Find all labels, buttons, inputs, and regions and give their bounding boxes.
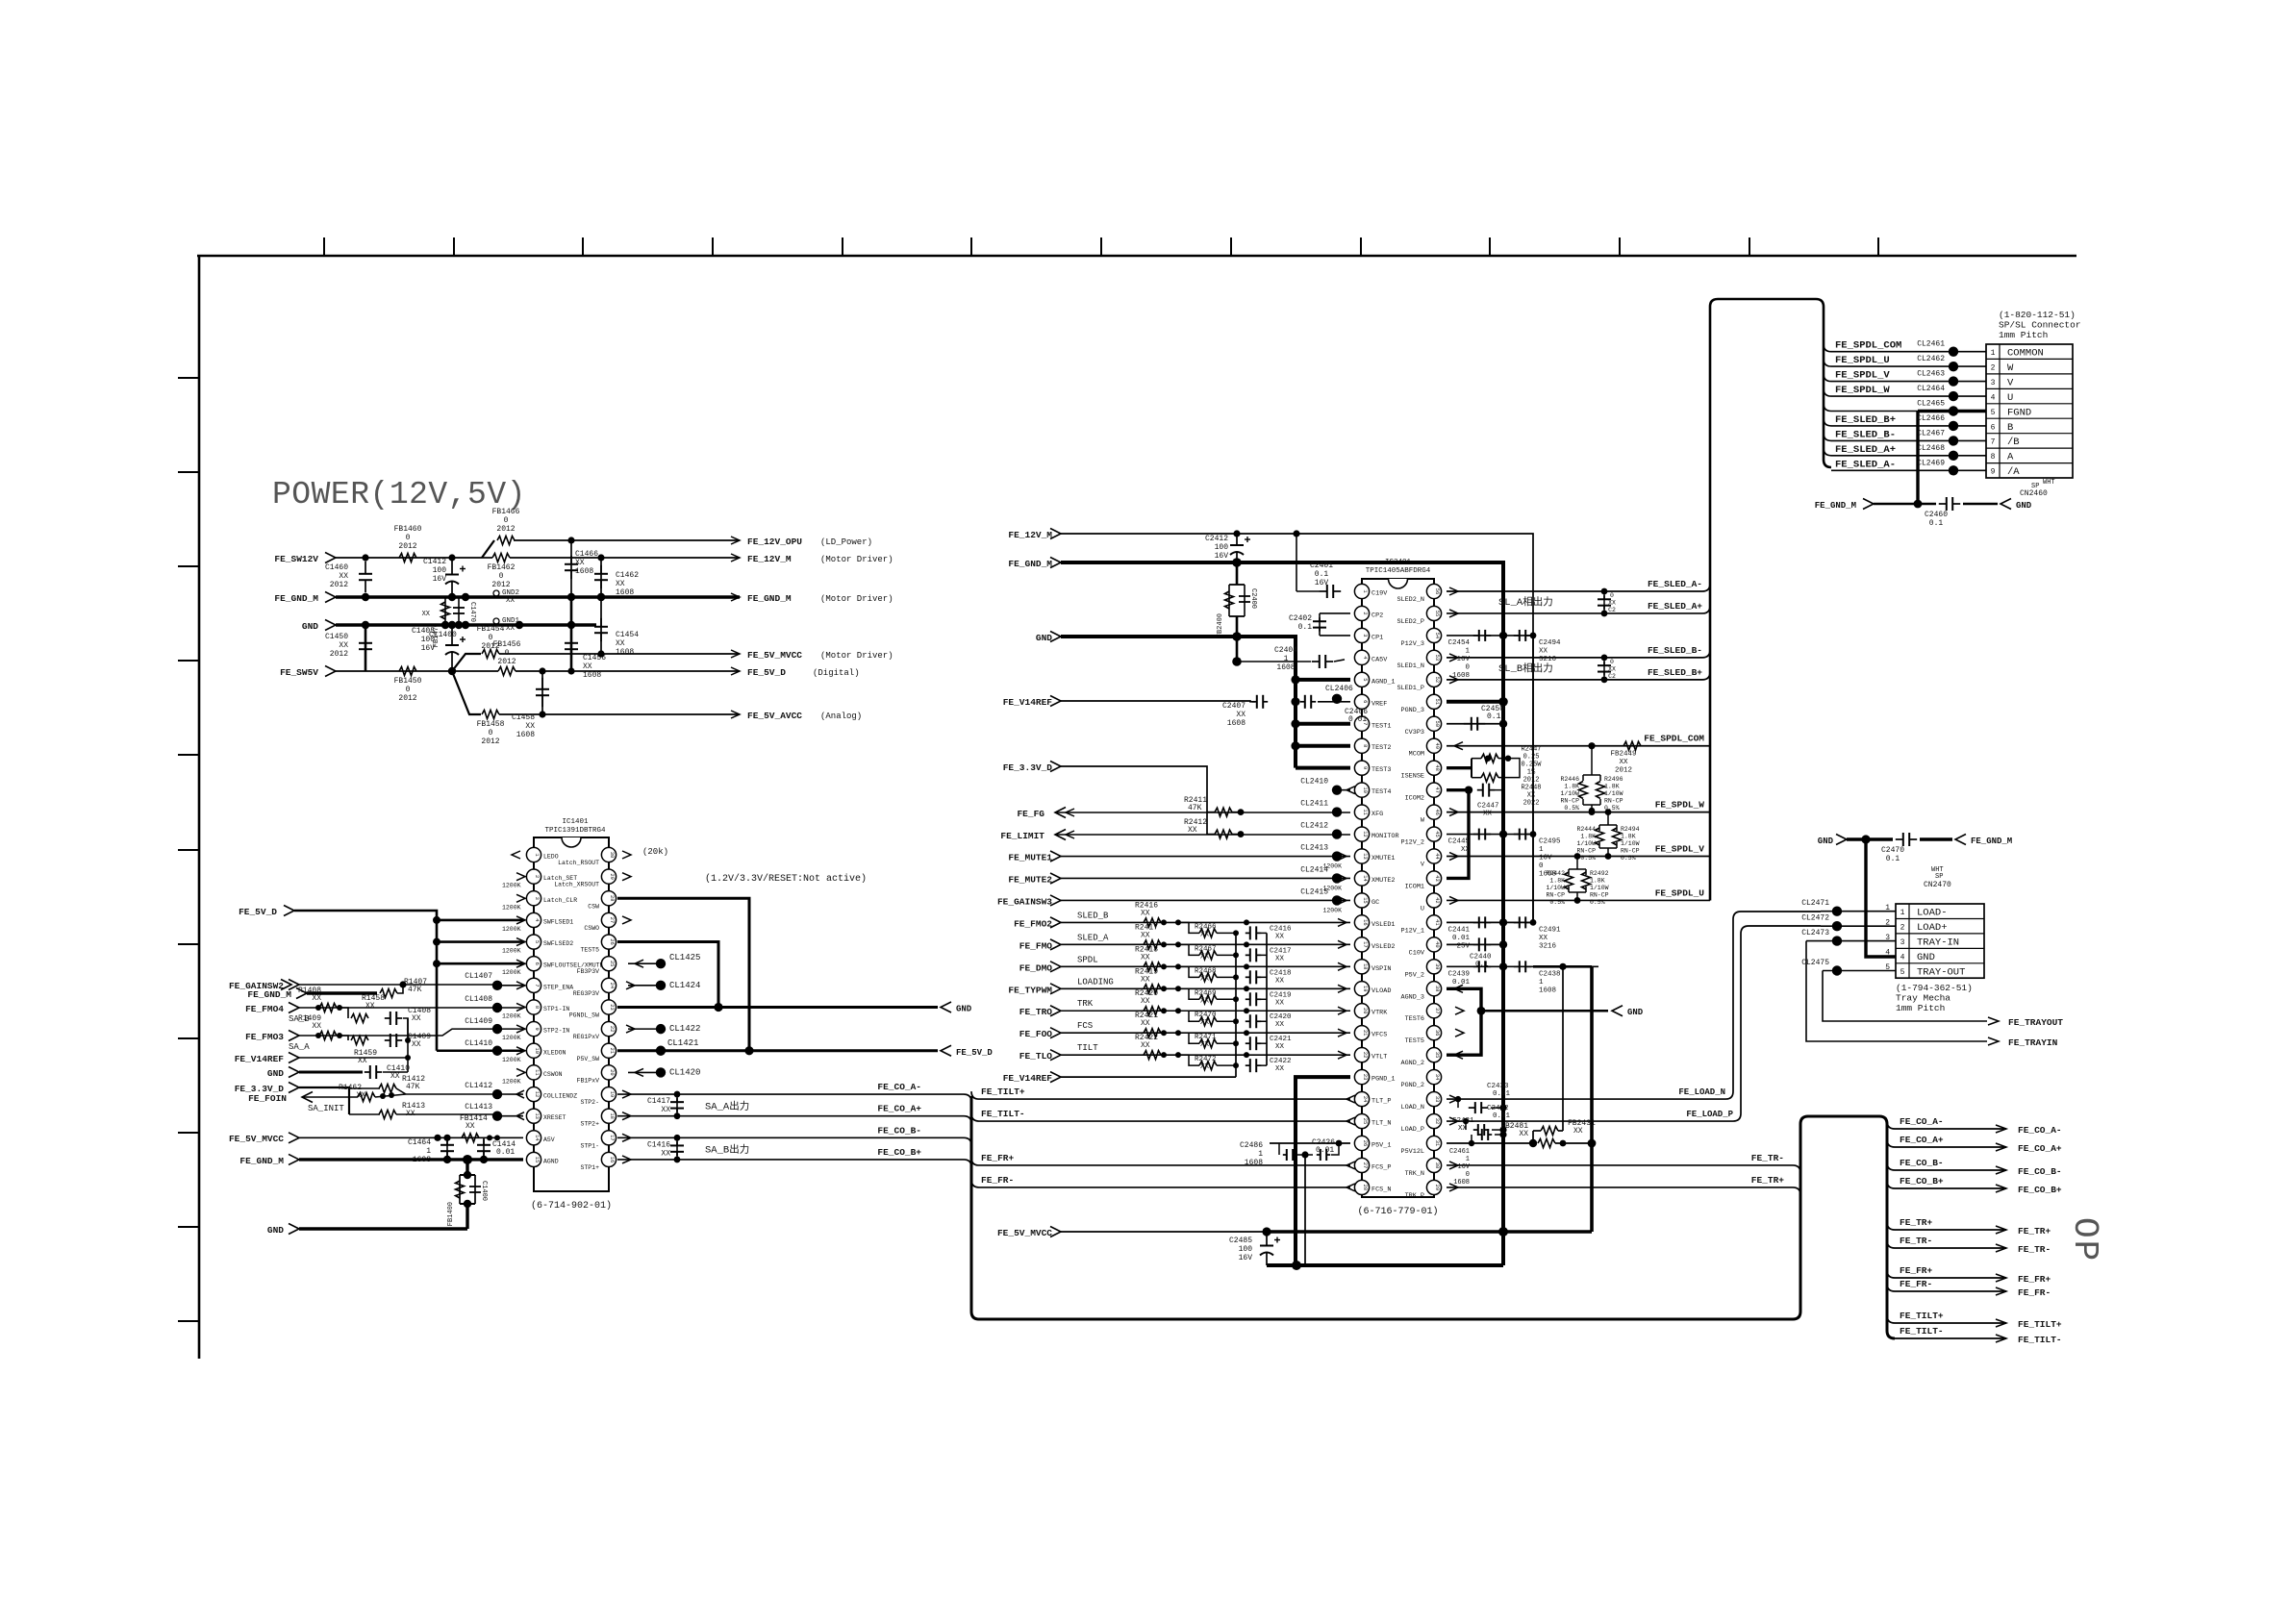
inductor CL2472 — [1832, 921, 1842, 931]
svg-text:B: B — [2007, 422, 2013, 434]
svg-text:49: 49 — [1434, 742, 1440, 748]
svg-text:C2433: C2433 — [1487, 1083, 1509, 1090]
svg-text:C2416: C2416 — [1270, 925, 1292, 933]
svg-text:(Motor Driver): (Motor Driver) — [820, 555, 893, 564]
svg-text:FE_LOAD_P: FE_LOAD_P — [1686, 1110, 1733, 1119]
wire FE_FOO row — [1061, 1032, 1350, 1034]
svg-text:0.5%: 0.5% — [1621, 855, 1636, 862]
resistor R2470 — [1178, 1011, 1199, 1021]
wire FE_FG row — [1055, 812, 1350, 813]
svg-text:10: 10 — [534, 1048, 540, 1054]
svg-text:9: 9 — [534, 1027, 540, 1030]
svg-text:0: 0 — [1466, 1171, 1470, 1179]
pin 7 IC1401 STEP_ENA — [526, 978, 541, 992]
svg-text:TEST5: TEST5 — [1405, 1037, 1424, 1045]
svg-text:SA_A: SA_A — [289, 1042, 310, 1052]
svg-text:3: 3 — [1362, 634, 1368, 637]
svg-text:0.01: 0.01 — [496, 1148, 515, 1157]
svg-text:(1.2V/3.3V/RESET:Not active): (1.2V/3.3V/RESET:Not active) — [705, 873, 867, 885]
ground symbol GND2 — [493, 590, 499, 596]
svg-text:12: 12 — [1362, 831, 1368, 837]
pin 21 IC1401 P5V_SW — [601, 1043, 616, 1058]
pin 5 IC2401 AGND_1 — [1354, 672, 1369, 687]
pin 19 IC2401 VLOAD — [1354, 982, 1369, 996]
svg-text:20: 20 — [609, 1069, 615, 1075]
svg-text:FCS_P: FCS_P — [1371, 1163, 1391, 1171]
svg-text:TRK_N: TRK_N — [1405, 1170, 1424, 1178]
svg-text:C2470: C2470 — [1881, 846, 1904, 855]
svg-text:1/10W: 1/10W — [1604, 790, 1623, 797]
wire cap common vertical — [407, 1018, 409, 1072]
pin 29 IC1401 Latch_XRSOUT — [601, 869, 616, 884]
wire FGND to ground cap thick — [1916, 412, 1919, 505]
connector CN2470 tray mecha table — [1896, 904, 1984, 978]
wire CN2460 row 5 — [1824, 404, 1986, 412]
svg-text:/A: /A — [2007, 466, 2020, 478]
svg-text:XX: XX — [356, 1091, 365, 1100]
pin 21 IC2401 VFCS — [1354, 1026, 1369, 1040]
svg-text:FE_5V_MVCC: FE_5V_MVCC — [747, 650, 802, 661]
svg-text:22: 22 — [609, 1026, 615, 1032]
svg-text:FE_3.3V_D: FE_3.3V_D — [1003, 762, 1053, 773]
resistor R1459 — [340, 1036, 348, 1040]
svg-text:2022: 2022 — [1523, 800, 1540, 808]
svg-text:1%: 1% — [1527, 769, 1536, 777]
inductor CL1409 — [492, 1024, 502, 1034]
svg-text:42: 42 — [1434, 897, 1440, 903]
svg-text:2: 2 — [534, 875, 540, 878]
pin 10 IC1401 XLEDON — [526, 1043, 541, 1058]
capacitor SL_A filter — [1603, 591, 1605, 613]
svg-text:Latch_XRSOUT: Latch_XRSOUT — [554, 882, 599, 888]
inductor CL1420 — [628, 1071, 656, 1073]
svg-text:2012: 2012 — [398, 694, 416, 703]
svg-text:LOAD-: LOAD- — [1917, 908, 1948, 919]
ruler ticks left — [178, 378, 199, 1321]
svg-text:CL2473: CL2473 — [1801, 929, 1829, 937]
node FE_CO_A- output — [1996, 1125, 2006, 1133]
svg-text:C1454: C1454 — [616, 631, 639, 639]
wire FE_5V_D to pin 5 — [437, 940, 523, 943]
wire LOAD_P row to pipe — [1447, 926, 1821, 1121]
svg-text:FE_5V_MVCC: FE_5V_MVCC — [997, 1228, 1052, 1238]
wire FE_TILT+ output row — [1887, 1315, 2006, 1323]
svg-text:55: 55 — [1434, 611, 1440, 616]
capacitor C2433 — [1457, 1099, 1459, 1108]
resistor FB2449 — [1623, 741, 1641, 750]
wire P5V_SW to FE_5V_D — [617, 1049, 938, 1052]
svg-text:CSWON: CSWON — [543, 1071, 563, 1078]
svg-text:C1464: C1464 — [408, 1138, 431, 1147]
wire FE_V14REF bottom row — [1061, 1076, 1236, 1078]
svg-text:MCOM: MCOM — [1409, 751, 1424, 759]
svg-text:CN2460: CN2460 — [2020, 489, 2048, 498]
capacitor C2422 — [1246, 1064, 1250, 1066]
svg-text:24: 24 — [609, 983, 615, 988]
svg-text:PGNDL_SW: PGNDL_SW — [569, 1012, 599, 1018]
svg-text:5: 5 — [1900, 968, 1905, 977]
svg-text:FE_SLED_B+: FE_SLED_B+ — [1835, 414, 1896, 426]
capacitor SL_B filter — [1603, 658, 1605, 680]
svg-text:FE_SPDL_U: FE_SPDL_U — [1835, 355, 1890, 366]
svg-text:VSLED2: VSLED2 — [1371, 943, 1395, 951]
wire GND branch vertical — [570, 597, 573, 671]
svg-text:SLED2_N: SLED2_N — [1397, 596, 1424, 604]
wire FE_12V_M row — [510, 557, 740, 559]
pin 16 IC2401 VSLED1 — [1354, 915, 1369, 930]
svg-text:(Motor Driver): (Motor Driver) — [820, 594, 893, 604]
svg-text:1200K: 1200K — [502, 904, 521, 911]
svg-text:SL_B相出力: SL_B相出力 — [1498, 662, 1553, 675]
svg-text:AGND_1: AGND_1 — [1371, 678, 1395, 686]
svg-text:FE_SW5V: FE_SW5V — [280, 667, 318, 678]
pin 34 IC2401 PGND_2 — [1426, 1070, 1441, 1085]
svg-text:100: 100 — [1215, 543, 1229, 552]
capacitor C1466 — [570, 540, 572, 597]
svg-text:PGND_1: PGND_1 — [1371, 1076, 1395, 1084]
svg-text:RN-CP: RN-CP — [1560, 798, 1579, 805]
wire V FE_SPDL_V row — [1447, 856, 1710, 858]
svg-text:28: 28 — [1362, 1185, 1368, 1190]
svg-text:FCS: FCS — [1077, 1021, 1093, 1031]
node GND arrow right side — [1612, 1006, 1623, 1016]
svg-text:R2447: R2447 — [1521, 746, 1541, 754]
svg-text:FE_SLED_B+: FE_SLED_B+ — [1648, 667, 1702, 678]
svg-text:R2448: R2448 — [1521, 785, 1541, 792]
svg-text:R2494: R2494 — [1621, 826, 1640, 833]
svg-text:16V: 16V — [1457, 1163, 1470, 1171]
svg-text:R2446: R2446 — [1560, 776, 1579, 783]
pin 30 IC2401 TRK_N — [1426, 1158, 1441, 1172]
svg-text:CL1412: CL1412 — [465, 1082, 492, 1090]
svg-text:C1462: C1462 — [616, 571, 639, 580]
node FE_5V_MVCC output — [731, 650, 740, 658]
svg-text:XX: XX — [339, 641, 348, 650]
wire FE_GND_M route thick — [1061, 562, 1503, 1265]
svg-text:FE_CO_A-: FE_CO_A- — [877, 1082, 921, 1092]
svg-text:16V: 16V — [1315, 579, 1329, 587]
svg-text:4: 4 — [534, 918, 540, 921]
svg-text:1.8K: 1.8K — [1604, 784, 1620, 790]
svg-text:TEST2: TEST2 — [1371, 744, 1391, 752]
svg-text:CL2468: CL2468 — [1917, 444, 1945, 453]
capacitor C1417 — [676, 1094, 678, 1116]
pin 13 IC1401 XRESET — [526, 1109, 541, 1123]
svg-text:19: 19 — [609, 1091, 615, 1097]
resistor FB1462 — [482, 557, 492, 559]
wire SLED1_P FE_SLED_B+ row — [1447, 672, 1710, 680]
pin 11 arrow CSWON — [516, 1068, 525, 1076]
svg-text:WHT: WHT — [2043, 479, 2055, 487]
wire AGND_1 stub thick — [1296, 678, 1350, 682]
svg-text:C2439: C2439 — [1447, 970, 1470, 978]
wire FE_CO_B+ from IC1401 — [622, 1156, 631, 1163]
wire SLED2_N FE_SLED_A- row — [1447, 584, 1710, 591]
inductor CL2413 — [1332, 851, 1342, 861]
svg-text:FE_GND_M: FE_GND_M — [747, 593, 792, 604]
svg-text:FE_CO_B-: FE_CO_B- — [877, 1125, 921, 1136]
svg-text:8: 8 — [534, 1006, 540, 1009]
wire CL2472 row — [1821, 925, 1896, 927]
resistor R2471 — [1178, 1033, 1199, 1043]
wire TRK_N row FE_TR- — [1447, 1165, 1800, 1173]
wire CL2473 row to FE_TRAYIN — [1806, 940, 1896, 942]
svg-text:FB1466: FB1466 — [492, 508, 520, 516]
inductor CL2461 — [1949, 347, 1958, 357]
svg-text:RN-CP: RN-CP — [1604, 798, 1623, 805]
capacitor C1412 electrolytic — [451, 558, 453, 575]
wire FE_FMO3 row — [299, 1029, 523, 1036]
svg-text:R2496: R2496 — [1604, 776, 1623, 783]
svg-text:12: 12 — [534, 1091, 540, 1097]
svg-text:CL1408: CL1408 — [465, 995, 492, 1004]
pin 17 IC1401 STP1- — [601, 1131, 616, 1145]
svg-text:XX: XX — [1200, 953, 1210, 961]
svg-text:0.01: 0.01 — [1316, 1146, 1334, 1155]
svg-text:C2419: C2419 — [1270, 991, 1292, 999]
resistor R2467 — [1178, 944, 1199, 955]
svg-text:FGND: FGND — [2007, 407, 2031, 418]
svg-text:XX: XX — [1608, 600, 1616, 607]
svg-text:18: 18 — [1362, 963, 1368, 969]
svg-text:CP1: CP1 — [1371, 634, 1383, 641]
wire P12V vertical stubs — [1532, 636, 1534, 922]
svg-text:FE_SPDL_U: FE_SPDL_U — [1655, 887, 1705, 898]
op-amp IC2401 body — [1362, 579, 1434, 1197]
svg-text:XX: XX — [1275, 1043, 1285, 1051]
svg-text:54: 54 — [1434, 633, 1440, 638]
svg-text:14: 14 — [534, 1135, 540, 1140]
inductor CL1425 — [628, 962, 656, 964]
svg-text:1: 1 — [1258, 1150, 1263, 1159]
svg-text:COLLIENDZ: COLLIENDZ — [543, 1093, 577, 1100]
capacitor C1456 — [570, 635, 572, 643]
svg-text:3216: 3216 — [1539, 656, 1557, 663]
wire P5V_2 branch vertical thin — [1562, 966, 1564, 1131]
svg-text:XX: XX — [1275, 933, 1285, 940]
svg-text:GND1: GND1 — [502, 617, 520, 625]
svg-text:1/10W: 1/10W — [1590, 885, 1609, 891]
svg-text:10: 10 — [1362, 787, 1368, 792]
resistor R2472 — [1178, 1055, 1199, 1065]
svg-text:XX: XX — [1200, 1019, 1210, 1027]
svg-text:FE_CO_A+: FE_CO_A+ — [877, 1104, 921, 1114]
inductor CL2465 — [1949, 406, 1958, 415]
svg-text:P5V_2: P5V_2 — [1405, 971, 1424, 979]
pin 3 IC2401 CP1 — [1354, 628, 1369, 642]
svg-text:1200K: 1200K — [502, 926, 521, 933]
svg-text:0.25: 0.25 — [1523, 754, 1540, 762]
svg-text:TRAY-IN: TRAY-IN — [1917, 937, 1959, 948]
svg-text:XX: XX — [1461, 846, 1471, 854]
wire GND row thick — [336, 623, 596, 627]
pin 42 IC2401 U — [1426, 893, 1441, 908]
svg-text:4: 4 — [1885, 948, 1890, 957]
pin 17 IC2401 VSLED2 — [1354, 937, 1369, 952]
svg-text:0.5%: 0.5% — [1564, 805, 1579, 812]
node FE_TR- output — [1996, 1244, 2006, 1252]
svg-text:SWFLSED2: SWFLSED2 — [543, 940, 573, 947]
svg-text:1/10W: 1/10W — [1621, 840, 1640, 847]
resistor FB1460 — [399, 554, 416, 562]
cable pipe to SP SL connector — [1710, 299, 1831, 900]
wire FE_TILT- row — [971, 1113, 1350, 1121]
inductor CL2412 — [1332, 829, 1342, 838]
svg-text:5: 5 — [1362, 678, 1368, 681]
wire FE_CO_A+ from IC1401 — [622, 1112, 631, 1120]
svg-text:47K: 47K — [1188, 804, 1202, 812]
capacitor C2486 — [1270, 1142, 1350, 1144]
pin 12 IC2401 MONITOR — [1354, 827, 1369, 841]
svg-text:21: 21 — [609, 1048, 615, 1054]
svg-text:2: 2 — [1900, 923, 1905, 932]
svg-text:(20k): (20k) — [642, 847, 668, 857]
capacitor C1464 — [446, 1137, 448, 1160]
svg-text:POWER(12V,5V): POWER(12V,5V) — [272, 477, 526, 512]
svg-text:C2: C2 — [1608, 607, 1616, 613]
svg-text:2: 2 — [1362, 612, 1368, 614]
inductor CL2463 — [1949, 376, 1958, 386]
capacitor C2412 electrolytic — [1236, 534, 1238, 545]
svg-text:CSW: CSW — [588, 903, 599, 910]
svg-text:Tray Mecha: Tray Mecha — [1896, 993, 1950, 1004]
svg-text:GND: GND — [267, 1068, 284, 1079]
wire FE_5V_AVCC row — [499, 713, 740, 715]
svg-text:C2402: C2402 — [1289, 614, 1312, 623]
svg-text:LOAD_P: LOAD_P — [1401, 1126, 1424, 1134]
svg-text:GND: GND — [267, 1225, 284, 1236]
svg-text:TRK_P: TRK_P — [1405, 1192, 1424, 1200]
svg-text:FE_FR-: FE_FR- — [981, 1175, 1014, 1186]
resistor R2447 R2448 pair on ISENSE — [1447, 766, 1472, 769]
capacitor C1454 — [600, 597, 602, 654]
wire CN2460 row 2 — [1824, 359, 1986, 366]
wire CN2460 row 6 — [1824, 418, 1986, 426]
pin 36 IC2401 TEST5 — [1426, 1026, 1441, 1040]
capacitor C2416 — [1246, 932, 1250, 934]
resistor FB1414 — [462, 1134, 479, 1142]
wire FE_5V_D to pin 6 — [437, 962, 523, 965]
wire 5V fanout — [452, 654, 481, 671]
wire TRK_P arrow — [1449, 1184, 1458, 1191]
resistor R1407 — [380, 989, 397, 998]
node FE_TILT+ output — [1996, 1319, 2006, 1327]
svg-text:R2466: R2466 — [1195, 923, 1217, 931]
pin 27 IC1401 CSWO — [601, 912, 616, 927]
inductor CL1422 — [628, 1028, 656, 1030]
svg-text:XMUTE1: XMUTE1 — [1371, 855, 1395, 862]
wire FE_FR- output row — [1887, 1284, 2006, 1291]
svg-text:4: 4 — [1900, 953, 1905, 962]
svg-text:VSPIN: VSPIN — [1371, 965, 1391, 973]
svg-text:0: 0 — [406, 534, 411, 542]
svg-text:17: 17 — [1362, 941, 1368, 947]
svg-text:C1466: C1466 — [575, 550, 598, 559]
resistor FB1456 — [498, 667, 516, 676]
inductor CL1421 — [656, 1046, 666, 1056]
svg-text:CL2411: CL2411 — [1300, 800, 1328, 809]
wire FE_5V_D to pin 10 XLEDON — [437, 1049, 523, 1052]
svg-text:9: 9 — [1991, 468, 1996, 477]
svg-text:XX: XX — [312, 1022, 321, 1031]
resistor network R2442 R2492 — [1576, 857, 1578, 863]
svg-text:11: 11 — [1362, 809, 1368, 814]
svg-text:CL2467: CL2467 — [1917, 429, 1945, 437]
svg-text:1/10W: 1/10W — [1576, 840, 1596, 847]
capacitor C1458 — [541, 671, 543, 714]
svg-text:SA_INIT: SA_INIT — [308, 1104, 344, 1113]
svg-text:TEST4: TEST4 — [1371, 788, 1391, 796]
wire TRK_P row FE_TR+ — [1447, 1187, 1800, 1195]
pin 6 IC2401 VREF — [1354, 694, 1369, 709]
svg-text:LEDO: LEDO — [543, 854, 559, 861]
wire AGND_3 AGND_2 bracket thick — [1447, 988, 1481, 1055]
svg-text:21: 21 — [1362, 1030, 1368, 1036]
capacitor C2461 on P5V12L — [1447, 1142, 1533, 1144]
resistor FB1458 — [482, 711, 499, 719]
svg-text:TEST6: TEST6 — [1405, 1015, 1424, 1023]
svg-text:(Analog): (Analog) — [820, 712, 862, 721]
capacitor C2407 — [1252, 701, 1257, 703]
svg-text:XX: XX — [661, 1106, 670, 1114]
capacitor C2440 on C10V — [1447, 943, 1503, 945]
svg-text:C2447: C2447 — [1477, 803, 1499, 811]
svg-text:FE_5V_D: FE_5V_D — [239, 907, 277, 917]
svg-text:1: 1 — [1991, 349, 1996, 358]
svg-text:GND: GND — [2016, 501, 2032, 511]
svg-text:0.5%: 0.5% — [1549, 899, 1565, 906]
svg-text:XX: XX — [365, 1002, 375, 1011]
wire FE_CO_B- from IC1401 — [622, 1134, 631, 1141]
wire GND down to connector thick — [1866, 839, 1896, 957]
svg-text:CL2472: CL2472 — [1801, 913, 1829, 922]
svg-text:1200K: 1200K — [502, 1012, 521, 1019]
pin 4 IC1401 SWFLSED1 — [526, 912, 541, 927]
svg-text:VLOAD: VLOAD — [1371, 987, 1391, 995]
capacitor C2431 — [1471, 1135, 1472, 1143]
svg-text:FE_TLO: FE_TLO — [1019, 1051, 1053, 1062]
svg-text:0.1: 0.1 — [1929, 519, 1944, 528]
svg-text:2012: 2012 — [496, 525, 515, 534]
svg-text:1: 1 — [1539, 846, 1544, 854]
svg-text:C2440: C2440 — [1470, 953, 1492, 961]
svg-text:XX: XX — [339, 572, 348, 581]
svg-text:XX: XX — [1141, 953, 1150, 962]
resistor R1412 — [349, 1087, 380, 1089]
svg-text:XLEDON: XLEDON — [543, 1049, 566, 1056]
inductor CL2473 — [1832, 936, 1842, 945]
svg-text:CL2469: CL2469 — [1917, 459, 1945, 467]
svg-text:43: 43 — [1434, 875, 1440, 881]
svg-text:46: 46 — [1434, 809, 1440, 814]
pin 13 IC2401 XMUTE1 — [1354, 849, 1369, 863]
svg-text:27: 27 — [1362, 1162, 1368, 1168]
ferrite bead FB1400 capacitor C1400 cluster — [466, 1160, 468, 1175]
svg-text:ICOM1: ICOM1 — [1405, 883, 1424, 890]
node GND arrow top right — [1963, 503, 1998, 506]
pin 8 IC1401 STP1-IN — [526, 1000, 541, 1014]
svg-text:5: 5 — [1991, 409, 1996, 417]
resistor R1413 — [349, 1113, 380, 1115]
svg-text:30: 30 — [1434, 1162, 1440, 1168]
wire FE_FR+ output row — [1887, 1270, 2006, 1278]
pin 15 IC2401 GC — [1354, 893, 1369, 908]
resistor network R2446 R2496 — [1591, 746, 1593, 769]
svg-text:0.01: 0.01 — [1493, 1090, 1511, 1098]
svg-text:1: 1 — [426, 1147, 431, 1156]
svg-text:R2492: R2492 — [1590, 870, 1609, 877]
svg-text:C2420: C2420 — [1270, 1013, 1292, 1021]
